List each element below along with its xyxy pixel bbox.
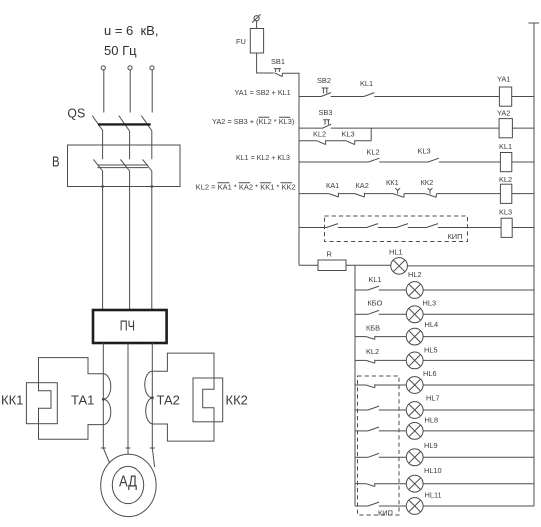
resistor R body	[318, 260, 346, 271]
lamp rung HL3 wire middle	[379, 313, 407, 315]
pushbutton SB1 break contact blade	[275, 73, 283, 77]
rung 6 wire left	[299, 264, 318, 266]
KIP contact blade (HL7 rung)	[368, 406, 379, 410]
KIP contact 3 blade	[397, 224, 409, 228]
lamp rung HL11 wire middle	[379, 505, 407, 507]
svg-text:КК2: КК2	[226, 393, 248, 408]
rung 4 wire c	[404, 193, 425, 195]
breaker B blade phase A	[93, 159, 102, 171]
lamp HL10 symbol	[406, 475, 423, 492]
rung 1 wire right	[374, 96, 499, 98]
contact КБВ blade (HL4 rung)	[366, 336, 375, 340]
lamp rung HL7 wire right	[423, 409, 534, 411]
svg-text:KL1: KL1	[369, 275, 382, 284]
rung 6 wire middle	[346, 264, 391, 266]
svg-text:КА1: КА1	[326, 181, 339, 190]
NC contact KA2 blade	[355, 193, 365, 197]
rung 2 branch wire middle	[326, 140, 347, 142]
KIP contact blade (HL9 rung)	[368, 453, 379, 457]
lamp rung HL10 wire left	[355, 483, 366, 485]
bottom KIP dashed enclosure	[358, 376, 400, 515]
rung 1 wire middle	[331, 96, 364, 98]
lamp rung HL11 wire right	[423, 505, 534, 507]
lamp rung HL4 wire middle	[375, 336, 407, 338]
arrow tick left wire	[101, 447, 106, 449]
lamp HL6 symbol	[406, 377, 423, 394]
svg-text:ПЧ: ПЧ	[120, 317, 135, 334]
svg-text:КА2: КА2	[356, 181, 369, 190]
breaker B blade phase B	[120, 159, 129, 171]
rung 5 wire left	[299, 227, 327, 229]
rung 4 wire left	[299, 193, 329, 195]
breaker B stub phase A	[102, 145, 104, 159]
svg-text:KL1: KL1	[499, 142, 512, 151]
formula YA2 = SB3 + (KL2 * KL3)	[212, 117, 294, 126]
lamp rung HL9 wire left	[355, 456, 368, 458]
svg-text:KL2: KL2	[499, 175, 512, 184]
svg-text:ТА2: ТА2	[157, 393, 180, 408]
lamp rung HL3 wire left	[355, 313, 368, 315]
svg-text:КК2: КК2	[421, 178, 434, 187]
svg-text:R: R	[327, 250, 332, 259]
disconnector QS blade phase C	[141, 116, 152, 131]
wire phase B drop to QS	[129, 70, 131, 113]
svg-text:HL10: HL10	[424, 466, 442, 475]
label supply voltage u = 6 kV 50 Hz	[104, 23, 158, 58]
pushbutton SB3 actuator	[323, 120, 330, 125]
svg-text:YA2 = SB3 + (KL2 * KL3): YA2 = SB3 + (KL2 * KL3)	[212, 117, 294, 126]
svg-text:КК1: КК1	[1, 393, 23, 408]
svg-text:ТА1: ТА1	[71, 393, 94, 408]
node terminal circle phase A	[101, 66, 105, 70]
lamp rung HL10 wire middle	[375, 483, 407, 485]
NC contact KA1 blade	[329, 193, 339, 197]
svg-text:KL2: KL2	[367, 148, 380, 157]
disconnector QS blade phase B	[119, 116, 130, 131]
rung 2 wire left	[299, 127, 323, 129]
svg-text:SB1: SB1	[271, 57, 285, 66]
rung 2 wire right	[331, 127, 500, 129]
breaker B stub phase C	[151, 145, 153, 159]
NC contact KL3 blade (branch)	[346, 140, 355, 144]
rung 2 branch wire right	[355, 140, 372, 142]
svg-text:HL9: HL9	[424, 441, 438, 450]
svg-text:HL11: HL11	[425, 490, 442, 499]
svg-text:КБО: КБО	[368, 299, 383, 308]
KIP contact blade (HL11 rung)	[368, 502, 379, 506]
rung 5 wire b	[378, 227, 397, 229]
KIP contact 2 blade	[367, 224, 379, 228]
KIP contact blade (HL8 rung)	[368, 427, 379, 431]
wire SB1 to left bus	[282, 73, 299, 96]
svg-text:SB3: SB3	[319, 108, 333, 117]
junction dot TA2 winding	[151, 396, 154, 399]
lamp rung HL11 wire left	[355, 505, 368, 507]
svg-text:KL3: KL3	[418, 147, 431, 156]
rung 2 parallel branch wire left	[299, 140, 317, 142]
svg-text:KL1: KL1	[360, 79, 373, 88]
pushbutton SB2 contact blade	[321, 93, 331, 97]
wire phase B QS to breaker box	[129, 131, 131, 145]
rung 6 wire right	[407, 265, 534, 267]
svg-text:KL2 = KA1 * KA2 * KK1 * KK2: KL2 = KA1 * KA2 * KK1 * KK2	[196, 183, 296, 192]
svg-text:КК1: КК1	[386, 178, 399, 187]
KIP dashed enclosure (rung 5)	[325, 216, 468, 242]
thermal contact KK2 symbol	[425, 188, 436, 197]
rung 3 wire left	[299, 161, 369, 163]
frequency converter PCh box	[93, 310, 167, 343]
relay contact KL3 blade (rung3)	[428, 158, 439, 162]
thermal relay KK2 heater box	[193, 378, 223, 422]
thermal relay KK1 heater box	[26, 383, 57, 424]
wire fuse to SB1	[257, 53, 274, 73]
plug symbol above fuse	[252, 14, 260, 22]
svg-text:KL3: KL3	[342, 130, 355, 139]
svg-text:YA1 = SB2 + KL1: YA1 = SB2 + KL1	[235, 88, 291, 97]
contact KL2 blade (HL5 rung)	[366, 360, 375, 364]
lamp HL9 symbol	[406, 449, 423, 466]
lamp rung HL8 wire middle	[379, 430, 407, 432]
wire phase C QS to breaker box	[151, 131, 153, 145]
svg-text:HL5: HL5	[424, 346, 438, 355]
coil YA1 wire to bus	[512, 96, 534, 98]
node terminal circle phase C	[150, 66, 154, 70]
disconnector QS blade phase A	[92, 116, 103, 131]
svg-text:SB2: SB2	[317, 76, 331, 85]
rung 2 branch join vertical	[370, 128, 372, 141]
wire PCh output middle	[127, 343, 129, 454]
junction dot phase A at box bottom	[101, 185, 104, 188]
KIP contact blade (HL6 rung)	[366, 384, 375, 388]
KIP contact 1 blade	[327, 224, 339, 228]
KIP contact 4 blade	[427, 224, 439, 228]
breaker B linkage double bar	[97, 165, 147, 168]
lamp rung HL5 wire right	[423, 359, 534, 361]
coil KL2 wire to bus	[512, 193, 534, 195]
pushbutton SB2 actuator	[322, 88, 329, 93]
lamp HL7 symbol	[406, 402, 423, 419]
svg-text:QS: QS	[67, 106, 85, 121]
lamp rung HL9 wire right	[423, 456, 534, 458]
left bus vertical	[298, 97, 300, 266]
rung 4 wire b	[364, 193, 393, 195]
coil KL2 body	[500, 184, 511, 203]
lamp rung HL7 wire middle	[379, 409, 407, 411]
svg-text:KL2: KL2	[366, 347, 379, 356]
pushbutton SB1 actuator	[274, 69, 281, 72]
current transformer TA1 secondary loop	[39, 358, 104, 440]
lamp rung HL3 wire right	[423, 313, 534, 315]
arrow tick right wire	[150, 447, 155, 449]
svg-text:HL8: HL8	[425, 416, 439, 425]
lamp rung HL8 wire left	[355, 430, 368, 432]
lamp rung HL5 wire left	[355, 359, 366, 361]
svg-text:HL4: HL4	[425, 320, 439, 329]
rung 5 wire c	[408, 227, 427, 229]
lamp HL8 symbol	[406, 423, 423, 440]
svg-text:HL1: HL1	[389, 248, 403, 257]
lamp rung HL4 wire right	[423, 336, 534, 338]
node terminal circle phase B	[128, 66, 132, 70]
breaker B blade phase C	[143, 159, 152, 171]
coil YA2 body	[499, 119, 512, 138]
relay contact KL2 blade (rung3)	[369, 158, 380, 162]
wire phase B breaker to PCh	[129, 171, 131, 310]
svg-text:КИП: КИП	[378, 509, 393, 518]
rung 4 wire a	[338, 193, 355, 195]
lamp rung HL6 wire middle	[375, 384, 407, 386]
svg-text:FU: FU	[236, 37, 246, 46]
svg-text:YA2: YA2	[497, 109, 510, 118]
disconnector QS linkage bar	[98, 123, 151, 125]
lamp rung HL6 wire right	[423, 384, 534, 386]
wire phase C drop to QS	[151, 70, 153, 113]
coil KL3 body	[501, 218, 512, 237]
svg-text:HL6: HL6	[423, 369, 437, 378]
coil YA2 wire to bus	[512, 127, 534, 129]
wire phase A breaker to PCh	[102, 171, 104, 310]
breaker B stub phase B	[129, 145, 131, 159]
lamp sub-bus vertical	[354, 265, 356, 506]
current transformer TA2 winding arcs	[145, 371, 153, 424]
wire phase A drop to QS	[103, 70, 105, 113]
svg-text:KL1 = KL2 + KL3: KL1 = KL2 + KL3	[236, 153, 290, 162]
junction dot phase C at box bottom	[150, 185, 153, 188]
lamp HL3 symbol	[406, 306, 423, 323]
rung 5 wire a	[338, 227, 367, 229]
svg-text:КБВ: КБВ	[366, 324, 380, 333]
junction dot TA1 winding	[102, 398, 105, 401]
lamp rung HL9 wire middle	[379, 456, 407, 458]
lamp HL5 symbol	[406, 352, 423, 369]
lamp rung HL2 wire middle	[379, 289, 407, 291]
lamp HL4 symbol	[406, 328, 423, 345]
lamp rung HL10 wire right	[423, 483, 534, 485]
breaker B enclosure box	[68, 145, 181, 187]
wire PCh output right	[152, 343, 154, 467]
right bus vertical	[533, 23, 535, 506]
lamp rung HL5 wire middle	[375, 359, 407, 361]
current transformer TA2 secondary loop	[152, 353, 214, 441]
svg-text:KL2: KL2	[313, 130, 326, 139]
right bus terminal tick	[528, 22, 539, 24]
lamp rung HL2 wire left	[355, 289, 368, 291]
svg-text:HL7: HL7	[426, 394, 440, 403]
NC contact KL2 blade (branch)	[317, 140, 326, 144]
rung 3 wire right	[439, 161, 501, 163]
lamp rung HL2 wire right	[423, 289, 534, 291]
thermal contact KK1 symbol	[393, 188, 404, 197]
svg-text:КИП: КИП	[448, 232, 463, 241]
svg-text:АД: АД	[119, 473, 137, 490]
rung 3 wire middle	[379, 161, 428, 163]
formula KL2 = KA1 * KA2 * KK1 * KK2	[196, 183, 296, 192]
coil YA1 body	[499, 87, 511, 106]
lamp rung HL6 wire left	[355, 384, 366, 386]
svg-text:u = 6 кВ,: u = 6 кВ,	[104, 23, 158, 38]
svg-text:YA1: YA1	[497, 75, 510, 84]
motor AD outer circle	[101, 454, 156, 516]
lamp HL2 symbol	[406, 282, 423, 299]
lamp HL1 symbol	[391, 258, 408, 275]
wire phase C breaker to PCh	[151, 171, 153, 310]
rung 5 wire right	[438, 227, 501, 229]
current transformer TA1 winding arcs	[103, 374, 111, 425]
lamp rung HL8 wire right	[423, 430, 534, 432]
wire phase A QS to breaker box	[102, 131, 104, 145]
coil KL3 wire to bus	[512, 227, 534, 229]
lamp rung HL7 wire left	[355, 409, 368, 411]
contact КБО blade (HL3 rung)	[368, 310, 379, 314]
lamp rung HL4 wire left	[355, 336, 366, 338]
arrow tick middle wire	[126, 447, 131, 449]
relay contact KL1 blade	[364, 93, 375, 97]
lamp HL11 symbol	[406, 498, 423, 515]
contact KL1 blade (HL2 rung)	[368, 286, 379, 290]
coil KL1 wire to bus	[512, 161, 534, 163]
svg-text:В: В	[52, 154, 60, 171]
pushbutton SB3 contact blade	[323, 124, 331, 128]
svg-text:HL2: HL2	[408, 270, 422, 279]
wire PCh output left	[103, 343, 109, 463]
wire plug to fuse	[256, 21, 258, 29]
rung 4 wire right	[436, 193, 500, 195]
svg-text:KL3: KL3	[499, 208, 512, 217]
coil KL1 body	[500, 153, 511, 172]
motor AD inner circle	[112, 466, 143, 503]
svg-text:50 Гц: 50 Гц	[104, 43, 137, 58]
KIP contact blade (HL10 rung)	[366, 483, 375, 487]
svg-text:HL3: HL3	[423, 299, 437, 308]
fuse FU body	[250, 29, 263, 54]
rung 1 wire left	[299, 96, 321, 98]
